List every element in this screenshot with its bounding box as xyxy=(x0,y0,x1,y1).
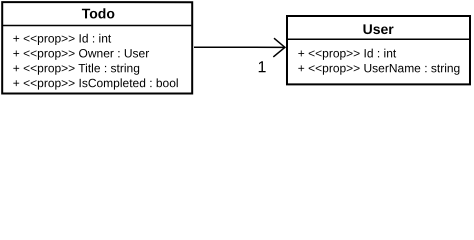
svg-text:+ <<prop>> IsCompleted : bool: + <<prop>> IsCompleted : bool xyxy=(13,76,179,90)
class box Todo xyxy=(2,2,192,93)
svg-text:+ <<prop>> UserName : string: + <<prop>> UserName : string xyxy=(298,61,460,75)
Todo header separator xyxy=(3,24,191,26)
svg-text:Todo: Todo xyxy=(82,5,115,21)
svg-text:User: User xyxy=(363,21,395,37)
open arrowhead at User xyxy=(273,38,285,57)
svg-text:+ <<prop>> Id : int: + <<prop>> Id : int xyxy=(13,31,112,45)
class box User xyxy=(287,16,470,84)
svg-text:+ <<prop>> Id : int: + <<prop>> Id : int xyxy=(298,46,397,60)
svg-text:+ <<prop>> Title : string: + <<prop>> Title : string xyxy=(13,61,140,75)
svg-text:+ <<prop>> Owner : User: + <<prop>> Owner : User xyxy=(13,46,149,60)
association wire Todo -> User xyxy=(194,46,285,48)
User header separator xyxy=(288,38,469,40)
svg-text:1: 1 xyxy=(257,59,266,76)
